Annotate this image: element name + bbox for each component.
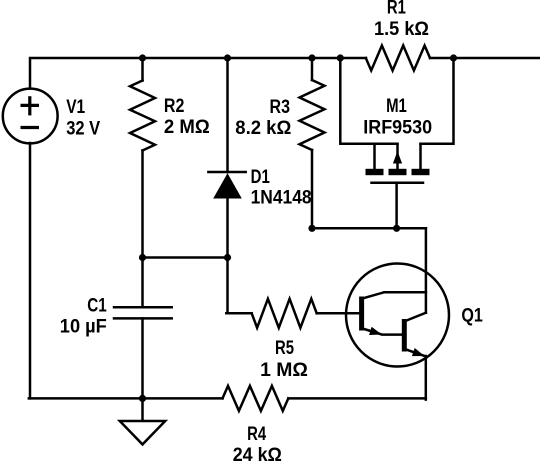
transistor Q1 <box>346 264 449 367</box>
wire bottom rail left <box>29 397 223 400</box>
capacitor C1 <box>114 306 172 309</box>
resistor R5 <box>252 299 317 328</box>
svg-text:R3: R3 <box>270 97 291 118</box>
node M1 gate <box>393 225 400 232</box>
svg-text:R1: R1 <box>387 0 406 18</box>
ground <box>120 398 165 444</box>
resistor R2 <box>130 81 155 151</box>
voltage source V1 <box>3 89 58 144</box>
wire top rail right segment <box>430 57 540 60</box>
wire top rail left segment <box>30 58 366 88</box>
node D1 top <box>224 54 231 61</box>
node R3 bottom <box>308 225 315 232</box>
resistor R4 <box>223 386 289 411</box>
wire bottom rail right <box>288 397 426 400</box>
svg-text:8.2 kΩ: 8.2 kΩ <box>235 118 291 139</box>
svg-text:10 µF: 10 µF <box>60 317 107 338</box>
svg-text:D1: D1 <box>251 167 271 188</box>
wire M1 gate lead <box>395 183 398 229</box>
svg-text:IRF9530: IRF9530 <box>363 117 432 138</box>
resistor R1 <box>366 46 430 71</box>
wire Q1 emitter riser <box>425 356 428 400</box>
wire C1 bottom <box>141 318 144 398</box>
svg-text:R2: R2 <box>164 96 185 117</box>
svg-text:24 kΩ: 24 kΩ <box>233 445 282 461</box>
wire R2 top lead <box>141 58 144 81</box>
wire gate net riser to Q1 collector <box>425 228 428 312</box>
wire R3 bottom lead <box>311 150 314 228</box>
node M1 drain top <box>450 54 457 61</box>
wire R2 bottom to C1 <box>141 151 144 308</box>
svg-text:32 V: 32 V <box>66 118 100 139</box>
wire V1 bottom to ground rail <box>29 143 32 398</box>
svg-text:Q1: Q1 <box>461 306 483 327</box>
svg-text:2 MΩ: 2 MΩ <box>164 117 210 138</box>
mosfet M1 <box>340 58 453 183</box>
wire R5 to Q1 base <box>317 312 360 315</box>
wire R3 top lead <box>311 58 314 80</box>
svg-text:1.5 kΩ: 1.5 kΩ <box>374 19 429 40</box>
svg-text:R4: R4 <box>247 424 266 445</box>
diode D1 <box>208 171 245 174</box>
node R2-C1 <box>139 254 146 261</box>
node R3 top <box>308 54 315 61</box>
svg-text:1N4148: 1N4148 <box>251 187 312 208</box>
node M1 source top <box>337 54 344 61</box>
node ground <box>139 395 146 402</box>
node R2 top <box>139 54 146 61</box>
resistor R3 <box>300 80 325 150</box>
wire D1 top lead <box>226 58 229 172</box>
wire gate net horizontal <box>312 227 426 230</box>
wire node R2-D1 <box>143 256 228 259</box>
svg-text:M1: M1 <box>386 96 407 117</box>
svg-text:1 MΩ: 1 MΩ <box>260 360 308 381</box>
node D1 anode <box>224 254 231 261</box>
wire to R5 <box>226 312 251 315</box>
wire D1 anode down <box>226 197 229 313</box>
svg-text:R5: R5 <box>275 338 294 359</box>
svg-text:V1: V1 <box>66 97 85 118</box>
svg-text:C1: C1 <box>87 296 107 317</box>
